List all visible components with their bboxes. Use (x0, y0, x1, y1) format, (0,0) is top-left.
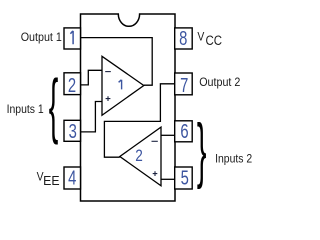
svg-text:Inputs 2: Inputs 2 (215, 153, 252, 166)
svg-text:}: } (197, 109, 207, 190)
svg-text:6: 6 (180, 120, 188, 143)
svg-text:8: 8 (179, 27, 187, 50)
svg-text:EE: EE (43, 174, 59, 188)
svg-text:Inputs 1: Inputs 1 (7, 103, 44, 116)
svg-text:5: 5 (181, 166, 189, 189)
svg-text:3: 3 (69, 120, 77, 143)
svg-text:7: 7 (180, 74, 188, 97)
svg-text:V: V (197, 31, 204, 44)
svg-text:{: { (49, 65, 59, 145)
svg-text:Output 2: Output 2 (199, 77, 240, 90)
svg-text:2: 2 (135, 147, 143, 166)
svg-text:2: 2 (68, 74, 76, 97)
svg-text:CC: CC (206, 33, 223, 48)
svg-text:4: 4 (68, 166, 76, 189)
svg-text:Output 1: Output 1 (21, 31, 62, 44)
